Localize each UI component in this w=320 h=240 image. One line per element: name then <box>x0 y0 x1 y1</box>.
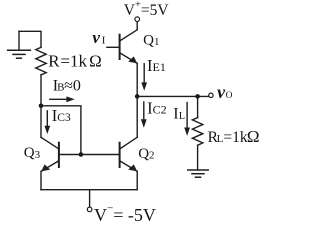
wire R bottom to node A <box>40 75 42 106</box>
svg-text:v: v <box>92 28 100 47</box>
terminal vo (open circle) <box>209 93 213 97</box>
wire Q2 collector to node B <box>136 96 138 137</box>
wire rail to V- terminal <box>89 190 91 207</box>
svg-text:IB≈0: IB≈0 <box>53 78 81 95</box>
wire Q1 emitter to node B <box>136 63 138 96</box>
arrow IL (pointing down) <box>184 103 190 136</box>
transistor Q1 (NPN emitter follower) <box>120 30 138 64</box>
svg-text:V−= -5V: V−= -5V <box>94 202 156 225</box>
wire V+ terminal to Q1 collector <box>136 22 138 30</box>
arrow IC2 (pointing down) <box>141 102 147 128</box>
svg-text:R=1kΩ: R=1kΩ <box>48 51 102 70</box>
wire node A to base tie point <box>41 106 81 155</box>
arrow IC3 (pointing down) <box>44 111 50 134</box>
svg-text:I: I <box>102 35 106 47</box>
svg-text:V+=5V: V+=5V <box>124 0 170 19</box>
wire ground to resistor R top <box>19 31 41 47</box>
transistor Q3 (mirrored NPN) <box>41 137 59 171</box>
node A (junction of R, mirror input) <box>39 104 44 109</box>
arrow IE1 (pointing down) <box>141 64 147 91</box>
ground (below RL) <box>188 170 208 177</box>
wire Q1 base lead <box>107 46 119 48</box>
svg-text:RL=1kΩ: RL=1kΩ <box>208 127 260 146</box>
node B (output node) <box>135 94 140 99</box>
svg-text:O: O <box>226 91 233 101</box>
wire RL bottom to ground <box>197 145 199 170</box>
wire Q2 emitter to negative rail <box>136 171 138 189</box>
wire node to RL top <box>197 96 199 117</box>
ground (top-left) <box>8 31 31 58</box>
junction dot RL branch <box>195 94 200 99</box>
terminal V+ (open circle) <box>135 17 140 22</box>
resistor R <box>36 47 46 75</box>
wire node B to output terminal <box>137 95 209 97</box>
transistor Q2 (NPN) <box>120 137 138 171</box>
junction dot at base rail <box>79 152 84 157</box>
resistor RL <box>192 118 202 146</box>
wire base rail Q3 to Q2 <box>59 154 120 156</box>
terminal V- (open circle) <box>87 207 92 212</box>
negative supply rail wire <box>41 189 137 191</box>
wire Q3 emitter to negative rail <box>40 171 42 189</box>
wire node A to Q3 collector <box>40 106 42 138</box>
arrow IB (base current, pointing right) <box>50 96 75 102</box>
